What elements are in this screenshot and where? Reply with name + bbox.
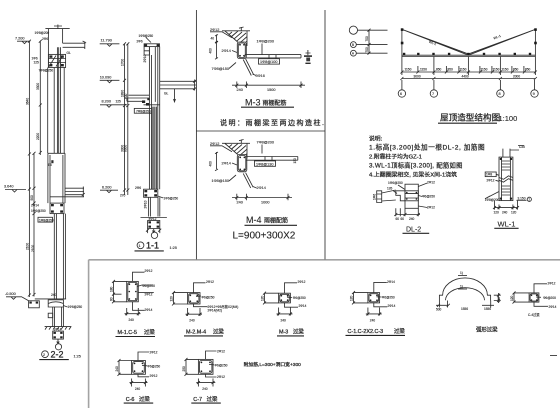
svg-text:3000: 3000 [414,75,421,79]
wire: gray horizontal divider [89,259,560,261]
svg-text:240: 240 [281,318,287,322]
wire: bottom chord double [402,55,536,56]
svg-text:1): 1) [460,285,463,289]
svg-text:1150: 1150 [460,68,467,72]
svg-text:1150: 1150 [420,68,427,72]
svg-text:2Φ12: 2Φ12 [298,280,306,284]
svg-text:2Φ6: 2Φ6 [42,37,48,41]
svg-text:Φ6@250: Φ6@250 [293,296,306,300]
label 1@8@130 boxed [255,157,276,167]
svg-text:1: 1 [528,198,530,202]
wire: outer arc [439,278,490,301]
lintel detail M-2 M-4 [170,280,239,336]
svg-text:500: 500 [436,308,442,312]
svg-text:雨棚配筋: 雨棚配筋 [263,99,287,107]
svg-text:过梁: 过梁 [139,395,150,403]
svg-text:GL: GL [67,51,71,55]
dim vertical 700s [365,29,371,55]
svg-text:1Φ6@250: 1Φ6@250 [68,305,83,309]
label 2@12 top [206,349,226,359]
dim chain x=124.5 [123,42,126,195]
label 2@12 left [487,179,500,183]
svg-text:1-1: 1-1 [146,241,159,251]
svg-text:4400: 4400 [462,75,469,79]
footing block [146,217,161,233]
label @6@250 [196,295,215,299]
svg-text:M-4: M-4 [246,215,262,225]
wire: shaft upper verticals [48,47,64,153]
svg-text:120: 120 [261,295,265,301]
dim left [510,291,529,303]
svg-text:2Φ12: 2Φ12 [427,206,435,210]
wire: left beam section at ground [22,297,39,308]
svg-text:120: 120 [350,295,354,301]
svg-text:2Φ12: 2Φ12 [145,269,153,273]
wire: column right edge [62,29,64,44]
svg-text:1Φ8@150: 1Φ8@150 [212,179,229,183]
svg-text:2Φ14: 2Φ14 [388,304,396,308]
svg-text:850: 850 [448,68,454,72]
section 2-2 detail [4,25,86,360]
svg-text:C-4过梁: C-4过梁 [528,312,540,317]
label @6@200 [536,296,556,300]
dim bottom [125,308,141,322]
node section circle [55,344,61,350]
dim bottom [186,308,203,323]
svg-text:Φ6@250: Φ6@250 [202,295,215,299]
wire: ground line [141,217,167,219]
svg-text:2200: 2200 [36,133,40,140]
svg-text:270: 270 [120,194,126,198]
column rect [499,157,513,201]
label 1@8@200 left bottom [485,192,500,202]
main beam rect [405,184,418,208]
label title WL-1 [494,220,518,229]
wire: top extension [503,149,510,158]
wire: divider between M-3 and M-4 panels [196,130,325,132]
svg-text:说明:: 说明: [369,135,383,143]
svg-text:雨棚配筋: 雨棚配筋 [264,217,288,225]
small block left of stem [48,313,53,318]
label title C-6 [124,395,154,403]
svg-text:C-6: C-6 [126,397,135,403]
svg-text:7Φ8@250: 7Φ8@250 [136,109,151,113]
label 1556 right [482,301,494,312]
label 2@14 bottom [133,302,153,312]
label 3@16 [253,74,265,78]
svg-text:2Φ10: 2Φ10 [143,200,147,208]
svg-text:900: 900 [30,195,34,201]
label 2@14 top [374,280,395,293]
label title 2-2 [39,350,81,360]
dim 500 left [436,301,450,312]
label title M-3 [241,97,294,107]
beam hatch block at 3.6 level [50,203,64,214]
label 2@12 bottom [138,374,158,378]
wire: slab to right [246,157,298,161]
dim left [110,280,127,303]
svg-text:1Φ8@250: 1Φ8@250 [39,219,54,223]
svg-text:1): 1) [460,271,463,275]
svg-text:126: 126 [387,187,393,191]
svg-text:Φ6@200: Φ6@200 [142,284,155,288]
label 2@12 top [534,281,556,293]
svg-text:125: 125 [34,61,40,65]
wire: right beam at 10.09 [160,80,197,91]
dim bottom [394,208,420,221]
label @6@250 [142,365,160,369]
svg-text:11.790: 11.790 [101,39,112,43]
svg-text:1000: 1000 [261,200,269,204]
label 2@12 bottom right [418,206,435,210]
label 2@14 bottom [285,303,307,308]
svg-text:1:25: 1:25 [170,246,177,250]
svg-text:过梁: 过梁 [144,328,155,336]
arch lintel detail [436,271,501,334]
svg-text:C-7: C-7 [193,397,202,403]
dim bottom [493,201,519,215]
wire: panel border left of M-3/M-4 [195,10,197,259]
dim left [170,291,188,305]
svg-text:7: 7 [432,92,434,96]
dim bottom [277,308,293,323]
svg-text:10.090: 10.090 [100,76,112,80]
node level -0.500 [5,292,22,299]
svg-text:3.WL-1顶标高[3.200], 配筋如图: 3.WL-1顶标高[3.200], 配筋如图 [369,161,463,170]
svg-text:WL-1: WL-1 [498,220,516,229]
hatched beam top M-3 [220,27,258,50]
label 2@14 bottom [374,303,396,308]
wire: left vertical chord [401,29,403,56]
svg-text:M-1.C-5: M-1.C-5 [118,330,137,336]
svg-text:7Φ8@250: 7Φ8@250 [39,69,54,73]
svg-text:240: 240 [370,318,376,322]
wire: right vertical chord [534,29,536,56]
section rect [198,359,213,374]
node marker right edge [304,50,312,64]
svg-text:60: 60 [110,297,114,301]
svg-text:1556: 1556 [484,307,491,311]
svg-text:1700: 1700 [120,59,124,66]
label 2@14 [222,49,238,53]
svg-text:240: 240 [115,366,119,372]
svg-text:2Φ12: 2Φ12 [487,179,495,183]
svg-text:2Φ12: 2Φ12 [206,280,214,284]
lintel detail C-7 [182,349,228,403]
svg-text:3.640: 3.640 [4,185,14,189]
dim line M-3 [232,82,305,93]
svg-text:Φ6@250: Φ6@250 [422,195,435,199]
label @6@250 [377,296,395,300]
svg-text:2Φ12: 2Φ12 [150,374,158,378]
svg-text:4.上翻圈梁相交, 见梁长X间-1浇筑: 4.上翻圈梁相交, 见梁长X间-1浇筑 [369,171,457,179]
svg-text:60: 60 [401,217,405,221]
svg-text:弧形过梁: 弧形过梁 [476,326,498,334]
svg-text:120: 120 [510,295,514,301]
svg-text:7Φ8@150: 7Φ8@150 [212,67,229,71]
label 2@12 top right [418,181,435,187]
svg-text:2Φ14: 2Φ14 [31,204,39,208]
svg-text:1150: 1150 [481,68,488,72]
DL-2 ring beam detail [373,181,436,234]
svg-text:7.200: 7.200 [15,37,25,41]
svg-text:附加筋,L=300+洞口宽+300: 附加筋,L=300+洞口宽+300 [244,361,302,368]
svg-text:400: 400 [209,161,213,167]
svg-text:240: 240 [202,387,208,391]
svg-text:7Φ8@200: 7Φ8@200 [257,141,274,145]
svg-text:2-2: 2-2 [51,350,64,360]
svg-text:9: 9 [533,92,535,96]
label 1) apex [458,271,467,276]
beam section M-3 [237,42,246,59]
svg-text:2Φ14: 2Φ14 [222,162,231,166]
wire: right diagonal double [468,29,536,55]
label 2@12 [210,142,232,152]
svg-text:2Φ6: 2Φ6 [135,186,141,190]
label 1) inner [458,285,467,290]
node grid circle A [351,50,388,56]
wire: column left edge [47,29,49,68]
svg-text:60: 60 [396,217,400,221]
wire: lower slab line [50,196,84,198]
svg-text:250: 250 [182,366,186,372]
svg-text:Φ6: Φ6 [48,163,53,167]
section rect [127,281,139,301]
svg-text:2100: 2100 [31,245,35,252]
svg-text:240: 240 [502,211,508,215]
truss node squares [401,28,537,55]
svg-text:1Φ14: 1Φ14 [54,328,62,332]
footing section below [53,328,64,344]
label 2@12 top [138,350,158,360]
dim row 2 [400,75,537,81]
svg-text:2.附靠柱子均为GZ-1: 2.附靠柱子均为GZ-1 [369,153,422,161]
svg-text:40: 40 [211,37,215,41]
label 2@14 [253,186,266,190]
svg-text:3Φ16: 3Φ16 [256,74,265,78]
svg-text:850: 850 [436,68,442,72]
label 2@14 [222,162,238,166]
svg-text:2Φ14: 2Φ14 [549,305,557,309]
svg-text:屋顶造型结构图: 屋顶造型结构图 [440,112,500,123]
lintel detail M-3 [261,280,307,336]
wire: shaft lower verticals [152,107,156,190]
svg-text:2Φ14(M2): 2Φ14(M2) [208,309,222,313]
svg-text:过梁: 过梁 [207,395,218,403]
svg-text:700: 700 [365,36,369,42]
label title C-1 C-2X2 C-3 [346,327,406,335]
node level 8.200 [100,100,127,108]
dim line M-4 [232,194,292,205]
label 3.150 and circle 1 [517,197,532,202]
svg-text:1Φ8@200: 1Φ8@200 [485,198,500,202]
svg-text:240: 240 [409,217,415,221]
svg-text:2: 2 [43,353,45,357]
label title M-4 [245,215,298,225]
wire: diagonal strut [243,59,254,76]
lintel detail C-4 right edge [510,281,557,317]
svg-text:130: 130 [293,158,297,164]
wire: right beam at 7.2 level [63,41,87,49]
wire: widening step [48,153,65,203]
svg-text:6: 6 [400,92,402,96]
wire: ground hatch [45,327,72,330]
svg-text:240: 240 [51,293,57,297]
wire: top parapet line [45,25,69,29]
svg-text:过梁: 过梁 [293,328,304,336]
svg-text:-0.500: -0.500 [5,292,16,296]
svg-text:1Φ8@130: 1Φ8@130 [256,162,273,166]
dim left [182,358,198,376]
svg-text:Φ6@250: Φ6@250 [382,296,395,300]
label 2@12 top [194,280,215,293]
svg-text:120: 120 [494,211,500,215]
WL-1 column detail [485,145,532,229]
left step polygon [396,191,405,201]
svg-text:1: 1 [139,244,141,248]
label 1@8@100 boxed [259,55,280,65]
svg-text:1150: 1150 [405,68,412,72]
break symbol [499,176,513,182]
label title roof [438,112,517,124]
svg-text:1Φ6: 1Φ6 [373,194,377,200]
wire: left diagonal double [402,29,469,55]
label 1@8@250 [38,217,53,222]
svg-text:过梁: 过梁 [394,327,405,335]
dim chain left x=29.4 [28,40,31,297]
beam section M-4 [237,155,247,172]
svg-text:C-1.C-2X2.C-3: C-1.C-2X2.C-3 [348,329,384,335]
dim chain left x=40 [39,40,42,155]
lintel detail C-6 [115,350,160,403]
dim bottom [196,379,215,391]
svg-text:240: 240 [497,297,501,303]
column top cap [144,44,159,47]
truss outline [402,29,536,56]
beam block with rebar at top [48,54,65,67]
node level 6.200 [100,185,118,192]
label C30 [510,145,525,150]
label @6@250 [287,296,306,300]
section rect [529,293,539,302]
label 2@12 top [133,269,153,282]
wire: ground line [35,298,66,300]
svg-text:1150: 1150 [502,68,509,72]
svg-text:1.标高[3.200]处加一根DL-2, 加筋图: 1.标高[3.200]处加一根DL-2, 加筋图 [369,143,485,152]
svg-text:1:100: 1:100 [499,114,518,123]
svg-text:Φ6@200: Φ6@200 [543,296,556,300]
label title M-2 M-4 [184,328,224,336]
label 2@14 M2 [208,309,222,313]
head step block [144,47,149,55]
svg-text:2Φ14: 2Φ14 [299,304,307,308]
svg-text:125: 125 [116,99,122,103]
label 2@12 top [285,280,306,293]
svg-text:1150: 1150 [493,68,500,72]
svg-text:240: 240 [237,200,243,204]
lintel detail C-1 C-2X2 C-3 [346,280,406,335]
svg-text:Φ6@250: Φ6@250 [215,364,228,368]
svg-text:1Φ8@250: 1Φ8@250 [139,34,154,38]
label @6@200 [137,284,155,288]
label title M-3 [277,328,304,336]
svg-text:过梁: 过梁 [213,328,224,336]
label 1@8@200 boxed [134,108,152,113]
svg-text:240: 240 [237,88,243,92]
svg-text:120: 120 [511,211,517,215]
svg-text:GL: GL [164,92,168,96]
svg-text:1Φ8@100: 1Φ8@100 [260,60,277,64]
wire: lower column [149,197,160,216]
section 1-1 detail [100,34,197,251]
svg-text:2Φ12: 2Φ12 [548,281,556,285]
svg-text:2Φ14: 2Φ14 [257,186,266,190]
wire: inner arc [446,288,485,301]
frame: gray border L of bottom panel [89,10,560,408]
label 2@12 bottom [206,374,226,379]
node level 7.200 [15,37,30,44]
svg-text:1Φ6@250: 1Φ6@250 [164,197,179,201]
svg-text:2Φ10: 2Φ10 [143,54,147,62]
svg-text:120: 120 [170,296,174,302]
label 1@8@200 [257,40,274,55]
dim left [115,359,132,376]
label 7@8@200 [257,141,274,154]
M-3 canopy detail panel [209,27,326,127]
label title M-1 C-5 [116,328,156,337]
svg-text:1Φ6@250: 1Φ6@250 [388,181,403,185]
svg-text:700: 700 [365,47,369,53]
label 1@8 boxed left [485,172,499,177]
dim chain x=127.8 [126,42,129,195]
label @6@250 [209,364,228,368]
label 2@12 mid [138,292,154,296]
wire: small dash right edge [550,355,557,357]
corner dots top [500,158,512,200]
svg-text:3640: 3640 [25,98,29,105]
dim 240 right [494,293,501,303]
svg-text:1500: 1500 [267,88,275,92]
wire: diagonal strut [243,173,253,188]
svg-text:2Φ14: 2Φ14 [222,49,231,53]
node bubble 9 [531,80,538,97]
svg-text:DL-2: DL-2 [406,227,421,234]
svg-text:4Φ12: 4Φ12 [149,217,157,221]
floor slab at 8.2 [116,89,176,106]
label title C-7 [191,395,221,403]
svg-text:说明：雨棚梁至两边构造柱.: 说明：雨棚梁至两边构造柱. [220,118,325,127]
section rect [188,293,200,304]
label 2@12 [210,28,232,38]
wire: panel border right of M-3/M-4 [324,10,326,259]
node bubble 6 [398,80,405,97]
svg-text:B: B [352,43,354,47]
wire: stem verticals [53,307,64,327]
label 2@14 bottom [534,302,557,309]
svg-text:2000: 2000 [513,75,520,79]
svg-text:M-2.M-4: M-2.M-4 [186,330,206,336]
svg-text:1556: 1556 [461,307,468,311]
svg-text:2100: 2100 [25,243,29,250]
dim left [350,291,368,304]
node grid circle C [349,26,387,34]
node bubble 7 [430,80,437,97]
wire: lower column verticals [54,214,65,299]
M-4 canopy detail panel [209,140,298,242]
svg-text:2Φ12: 2Φ12 [145,292,153,296]
inner hatched band [405,191,418,201]
svg-text:2Φ12: 2Φ12 [427,181,435,185]
